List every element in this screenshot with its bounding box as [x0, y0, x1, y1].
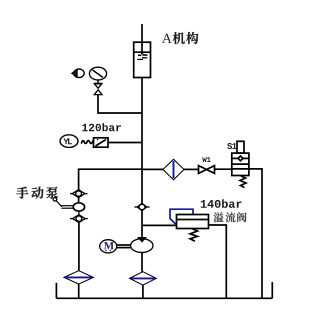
gauge branch wire: [98, 95, 142, 113]
cylinder A actuator body: [134, 42, 151, 77]
return wire S1 to tank: [249, 169, 262, 298]
relief valve body: [177, 215, 209, 229]
label A机构: [162, 32, 198, 44]
filter diamond: [163, 159, 184, 180]
check valve CV3 main line: [134, 203, 149, 210]
relief valve spring: [190, 229, 198, 242]
main vertical wire (cylinder to pump): [141, 78, 143, 239]
suction strainer 2: [130, 272, 157, 285]
suction strainer 1: [64, 271, 93, 284]
pressure gauge: [89, 67, 106, 83]
label 溢流阀: [214, 212, 247, 222]
hand pump lever: [53, 198, 73, 209]
solenoid coil of S1: [237, 141, 244, 153]
wire filter to valve W1: [184, 168, 199, 170]
pressure switch box: [94, 138, 109, 147]
label M: [104, 242, 114, 249]
check valve CV2: [70, 211, 88, 222]
relief valve pilot line: [170, 209, 193, 225]
main pump circle: [131, 239, 153, 253]
test coupling symbol: [72, 69, 84, 78]
pressure switch spring: [81, 141, 93, 144]
cartridge valve S1 body: [232, 153, 249, 175]
check valve CV1: [70, 190, 88, 198]
strainer 2 to tank wire: [142, 285, 144, 298]
spring of S1: [240, 176, 246, 188]
pressure switch YL oval: [60, 135, 78, 148]
label W1: [202, 157, 210, 162]
relief valve branch wire: [142, 224, 177, 226]
pump outlet wire to strainer 2: [141, 253, 143, 272]
relief valve outlet wire: [209, 225, 227, 298]
label 120bar: [82, 123, 121, 131]
tank reservoir: [56, 282, 272, 298]
pump inlet triangle: [139, 238, 145, 241]
label 140bar: [201, 199, 242, 208]
filter branch wire: [142, 168, 164, 170]
suction wire to strainer 1: [78, 223, 80, 271]
label 手动泵: [16, 187, 58, 199]
strainer 1 to tank wire: [78, 284, 80, 298]
motor M dots: [105, 250, 111, 251]
electric motor M: [100, 240, 117, 253]
label YL: [63, 138, 72, 144]
hand pump chamber: [73, 198, 84, 212]
manual pump branch wire: [79, 169, 142, 190]
gauge isolation valve: [94, 84, 102, 95]
wire W1 to S1: [215, 168, 232, 170]
coupling wires motor-pump: [117, 245, 131, 248]
label S1: [227, 143, 236, 149]
shutoff valve W1: [199, 166, 215, 174]
cylinder rod wire: [141, 24, 143, 52]
pressure switch branch wire: [108, 142, 142, 144]
